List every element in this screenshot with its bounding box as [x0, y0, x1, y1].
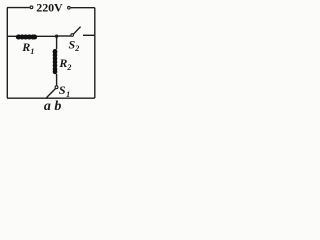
wire top-right segment — [71, 7, 95, 9]
wire right side — [94, 8, 96, 98]
wire bottom — [7, 97, 95, 99]
wire R2 to switch S1 terminal — [56, 74, 58, 86]
wire middle-left to R1 — [7, 35, 17, 37]
wire S2 to right side — [83, 34, 95, 36]
switch S2 pivot terminal — [71, 34, 74, 37]
switch S2 blade — [73, 27, 80, 35]
resistor R2 coil body — [53, 49, 58, 54]
switch S1 terminal — [55, 86, 58, 89]
terminal left (supply) — [30, 6, 33, 9]
svg-text:a: a — [44, 99, 51, 114]
node A junction dot — [55, 35, 58, 38]
wire node A down to R2 — [56, 36, 58, 49]
wire node A to switch S2 — [57, 35, 71, 37]
wire left side — [6, 8, 8, 98]
terminal right (supply) — [68, 6, 71, 9]
switch S1 blade — [46, 89, 55, 98]
wire R1 to node A — [37, 35, 57, 37]
svg-text:b: b — [54, 99, 61, 114]
resistor R1 coil body — [16, 34, 37, 39]
wire top-left segment — [7, 7, 30, 9]
svg-text:220V: 220V — [36, 0, 63, 14]
